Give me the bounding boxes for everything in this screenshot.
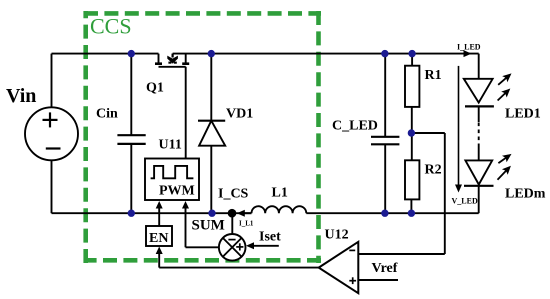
svg-text:L1: L1 bbox=[272, 186, 288, 201]
svg-text:Cin: Cin bbox=[96, 107, 118, 122]
svg-text:LEDm: LEDm bbox=[505, 187, 546, 202]
svg-text:Vin: Vin bbox=[6, 85, 36, 107]
svg-text:VD1: VD1 bbox=[226, 107, 253, 122]
svg-text:Q1: Q1 bbox=[146, 81, 164, 96]
svg-text:SUM: SUM bbox=[192, 218, 225, 234]
svg-text:Iset: Iset bbox=[259, 230, 281, 245]
svg-text:I_CS: I_CS bbox=[218, 187, 249, 202]
svg-text:U12: U12 bbox=[325, 228, 349, 243]
svg-text:U11: U11 bbox=[159, 138, 182, 153]
svg-text:CCS: CCS bbox=[90, 14, 132, 39]
svg-text:R1: R1 bbox=[425, 68, 442, 83]
svg-text:PWM: PWM bbox=[159, 184, 195, 199]
svg-text:C_LED: C_LED bbox=[332, 119, 378, 134]
svg-text:I_LED: I_LED bbox=[457, 43, 481, 52]
svg-text:I_L1: I_L1 bbox=[239, 220, 254, 228]
svg-text:R2: R2 bbox=[425, 163, 442, 178]
svg-text:EN: EN bbox=[149, 231, 168, 246]
svg-text:LED1: LED1 bbox=[505, 107, 541, 122]
svg-text:V_LED: V_LED bbox=[452, 197, 478, 206]
svg-text:Vref: Vref bbox=[372, 261, 398, 276]
